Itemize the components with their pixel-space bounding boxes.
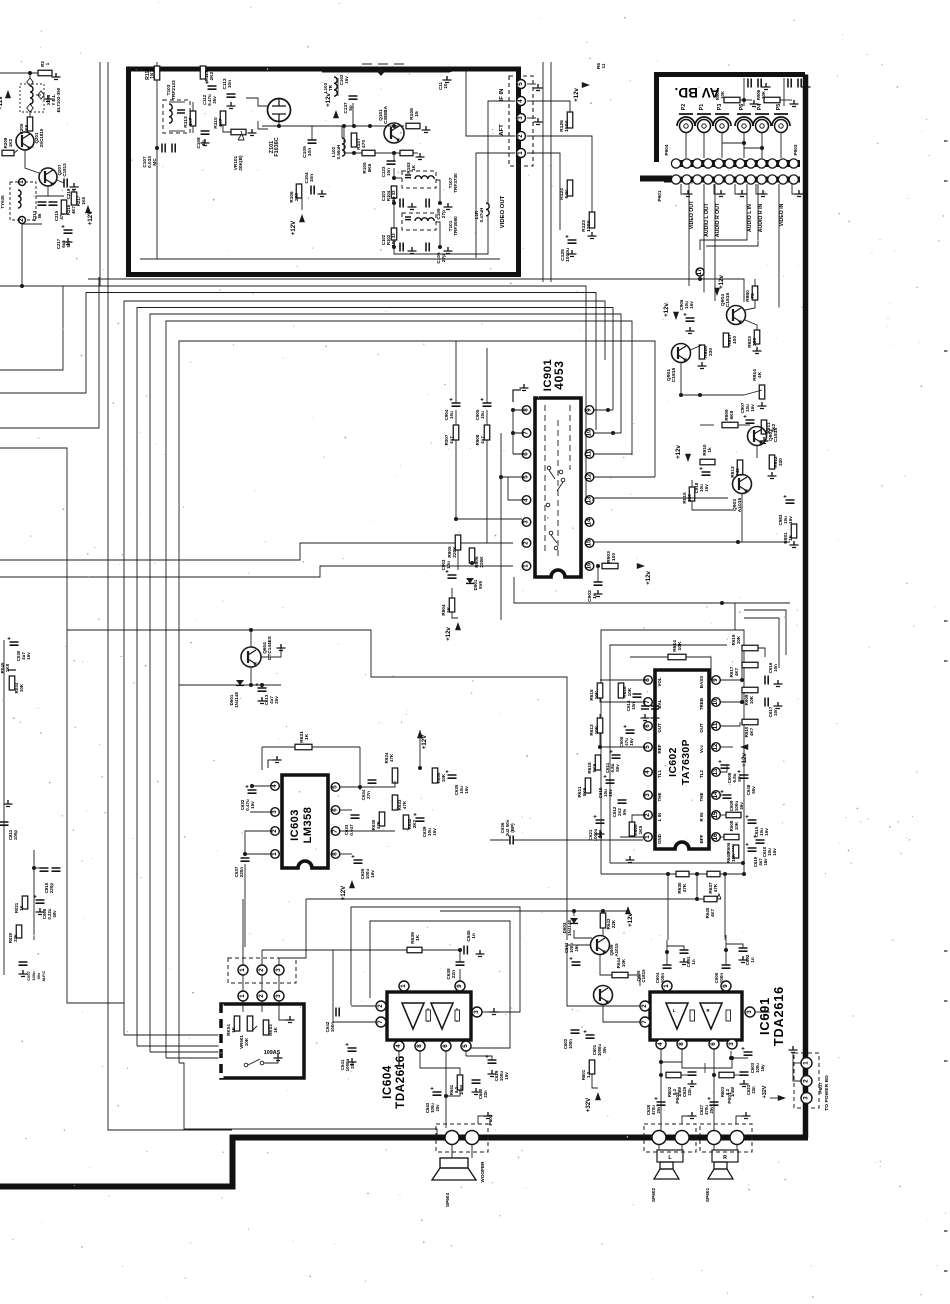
svg-text:10K: 10K <box>736 635 741 644</box>
svg-text:16v: 16v <box>464 786 469 794</box>
vertical line x501 pin5 pin4 <box>500 433 502 620</box>
resistor R630b 47K <box>379 812 385 826</box>
capacitor C609 100u <box>723 795 732 798</box>
svg-text:THE: THE <box>657 793 662 802</box>
svg-text:100: 100 <box>732 336 738 345</box>
capacitor C637 220n <box>241 858 250 861</box>
bus bottom turn L4 <box>137 1045 221 1047</box>
svg-text:TRF3730: TRF3730 <box>453 173 458 193</box>
svg-text:1n: 1n <box>691 959 696 964</box>
svg-text:C1815: C1815 <box>773 427 779 442</box>
y279 line left extension <box>88 278 130 280</box>
resistor R208 1K2 <box>2 150 14 156</box>
svg-text:4K7: 4K7 <box>710 908 715 917</box>
nested corner wires right of IC602 top <box>744 610 786 655</box>
resistor RK04 1K <box>234 1016 240 1031</box>
svg-text:DTC144ES: DTC144ES <box>267 636 272 660</box>
IC602 left pins <box>644 676 653 685</box>
svg-text:5p 33: 5p 33 <box>391 190 396 202</box>
svg-text:10K: 10K <box>621 958 626 967</box>
P602 pins <box>652 1131 666 1145</box>
wire node 17 line y279 <box>130 279 744 302</box>
svg-text:15: 15 <box>586 539 593 546</box>
svg-text:8: 8 <box>332 852 339 856</box>
resistor R020 33K <box>16 925 22 938</box>
svg-text:5p: 5p <box>348 105 353 111</box>
capacitor C619 10u 16v <box>606 780 615 783</box>
capacitor C692 1n <box>739 948 748 951</box>
svg-text:TRF2133: TRF2133 <box>171 80 176 100</box>
vertical x725 down to C692 <box>724 874 726 940</box>
capacitor C10B 1n <box>201 131 210 134</box>
resistor R980 75 <box>752 286 758 300</box>
wire R111 column <box>156 62 158 66</box>
capacitor C604 100n <box>663 965 672 968</box>
svg-text:17: 17 <box>696 268 703 275</box>
svg-text:14: 14 <box>712 791 719 798</box>
capacitor C615 10u 16v <box>748 820 757 823</box>
wire Q901 emitter node <box>681 362 744 395</box>
IC602 outer loop rectangle <box>601 630 744 874</box>
resistor R643 22K <box>602 911 604 913</box>
svg-text:25v: 25v <box>656 1106 661 1114</box>
svg-text:10n: 10n <box>386 168 391 176</box>
svg-text:+12v: +12v <box>663 303 670 317</box>
svg-text:8: 8 <box>644 678 651 682</box>
svg-text:GND: GND <box>657 833 662 844</box>
resistor R108 15 <box>406 123 420 129</box>
svg-text:22K: 22K <box>611 919 616 928</box>
svg-text:220: 220 <box>294 193 299 201</box>
top-left X201 network <box>0 72 44 74</box>
capacitor C638 22n <box>456 962 465 965</box>
svg-text:TDA2616: TDA2616 <box>395 1055 407 1109</box>
svg-text:10K: 10K <box>761 90 766 99</box>
wire pin12 to right loop <box>654 380 656 477</box>
svg-text:1n: 1n <box>750 957 755 962</box>
svg-text:+12v: +12v <box>627 913 634 927</box>
IC901 left pins <box>522 406 531 415</box>
svg-text:10n: 10n <box>773 664 778 672</box>
junction y602 <box>720 601 724 605</box>
svg-text:10K: 10K <box>734 821 739 830</box>
vertical x668 down to C691 <box>667 874 669 940</box>
wires IC604 left <box>351 1005 376 1007</box>
svg-text:10: 10 <box>586 429 593 436</box>
svg-text:1K3: 1K3 <box>150 69 156 79</box>
IC602 inner loop <box>610 645 727 863</box>
svg-text:9: 9 <box>586 408 593 412</box>
capacitor C612 2n2 <box>618 800 627 803</box>
wire pin2 AFT left <box>466 70 515 136</box>
IC601 bottom pins <box>656 1039 666 1049</box>
svg-text:4: 4 <box>517 99 524 103</box>
wire top pins up <box>261 950 263 965</box>
svg-text:AUDIO R OUT: AUDIO R OUT <box>715 202 721 237</box>
svg-text:50v: 50v <box>52 910 57 918</box>
capacitor C907 10u 16v <box>746 420 755 423</box>
svg-text:5V6: 5V6 <box>478 581 483 589</box>
RC network above P4 <box>764 97 780 103</box>
+12V arrow IC603 right <box>417 730 423 738</box>
svg-text:L: L <box>673 1008 676 1013</box>
resistor R909 6K8 <box>722 422 738 428</box>
svg-text:0.47uH: 0.47uH <box>479 208 484 223</box>
connector P607 dashed box <box>794 1053 819 1108</box>
svg-text:4K7: 4K7 <box>734 667 739 676</box>
speaker SP601 R box <box>713 1144 715 1150</box>
scan noise specks <box>308 197 309 198</box>
capacitor C645 1n <box>464 946 467 955</box>
svg-text:+12V: +12V <box>421 734 428 749</box>
svg-text:3: 3 <box>728 1042 735 1046</box>
svg-text:6: 6 <box>332 808 339 812</box>
svg-text:P903: P903 <box>793 144 798 155</box>
svg-text:15: 15 <box>712 811 719 818</box>
svg-text:IC602: IC602 <box>668 747 679 777</box>
svg-text:3: 3 <box>523 520 530 524</box>
svg-text:5K6: 5K6 <box>592 763 597 772</box>
svg-text:1: 1 <box>803 1061 810 1065</box>
capacitor C617 10n <box>765 698 768 707</box>
capacitor C639 10u <box>416 818 425 821</box>
capacitor C628 470u 25v <box>657 1102 666 1105</box>
wire bus L7 <box>179 341 655 1063</box>
wire pin8 down <box>340 853 352 855</box>
resistor R617 4K7 <box>742 662 758 668</box>
wire IC901 pin1 long line <box>0 566 513 577</box>
+12V arrow below IC603 <box>349 880 355 888</box>
inner ground rail tuner box <box>140 258 500 260</box>
svg-text:9: 9 <box>722 984 729 988</box>
svg-text:1K: 1K <box>19 904 24 910</box>
svg-text:4: 4 <box>271 784 278 788</box>
svg-text:2: 2 <box>377 1004 384 1008</box>
caps row y203 <box>393 198 395 203</box>
svg-text:100: 100 <box>611 553 617 562</box>
gnd hook P603 <box>478 1116 486 1124</box>
svg-text:150K: 150K <box>564 120 570 132</box>
wire pin13 long line <box>592 497 728 499</box>
svg-text:P2: P2 <box>681 104 687 111</box>
svg-text:R: R <box>706 1008 709 1013</box>
capacitor C632 0.47u 16v <box>248 790 257 793</box>
svg-text:16v: 16v <box>608 789 613 797</box>
svg-text:+12v: +12v <box>573 88 580 102</box>
transistor Q207 C1813 <box>39 168 57 186</box>
svg-text:2K2: 2K2 <box>209 71 214 80</box>
resistor R911 2K2 <box>761 420 767 434</box>
capacitor C213 56p <box>38 202 47 205</box>
capacitor C125 1000u <box>568 240 577 243</box>
svg-text:220p: 220p <box>49 883 54 893</box>
line y899 left extension <box>306 898 440 900</box>
svg-text:1.2: 1.2 <box>586 1071 591 1078</box>
resistor R102 33 <box>391 228 397 240</box>
svg-text:15: 15 <box>414 111 420 117</box>
P603 pins <box>445 1131 459 1145</box>
wire y602 drop to IC602 loop <box>734 603 736 630</box>
loop from bandpass to pin4 <box>394 216 488 254</box>
resistor R614 10K top of IC602 <box>668 654 686 660</box>
capacitor C603 100u 16v <box>744 1052 753 1055</box>
svg-text:220n: 220n <box>239 867 244 877</box>
switch in module <box>244 1063 248 1067</box>
+12v arrow near D603 <box>625 906 631 914</box>
long verticals x543 x551 <box>542 62 544 282</box>
svg-text:+12V: +12V <box>87 210 94 225</box>
svg-text:10K: 10K <box>441 773 446 782</box>
resistor R908 4u7 <box>484 425 490 440</box>
svg-text:10K: 10K <box>594 690 599 699</box>
svg-text:4K: 4K <box>757 371 763 378</box>
pin stubs IF <box>527 83 536 85</box>
resistor R104 33 <box>391 186 397 198</box>
capacitor C644 100u 16v <box>572 962 581 965</box>
wire pin8 cross <box>682 1056 732 1068</box>
wire bus L2 <box>0 293 596 431</box>
svg-text:25v: 25v <box>709 1106 714 1114</box>
resistor R205 1K8 <box>27 117 33 131</box>
svg-text:1K: 1K <box>304 733 310 740</box>
IC603 left pins <box>271 782 280 791</box>
svg-text:1K: 1K <box>415 934 421 941</box>
svg-text:10u: 10u <box>446 561 451 569</box>
svg-text:3: 3 <box>803 1096 810 1100</box>
svg-text:14: 14 <box>586 518 593 525</box>
wires right pins <box>721 648 742 680</box>
IC601 body TDA2616 <box>650 992 742 1040</box>
wire pin14 <box>721 794 727 796</box>
capacitor C606 47u 16v <box>626 730 635 733</box>
IC604 inner feedback loop <box>370 921 510 1048</box>
inner loop bottom y863 <box>629 862 743 864</box>
connector row thick bar P904-P903 <box>672 160 800 167</box>
svg-text:22n: 22n <box>751 1086 756 1094</box>
svg-text:16v: 16v <box>370 870 375 878</box>
svg-text:6: 6 <box>644 724 651 728</box>
resistor R123 120K <box>589 212 595 228</box>
svg-text:10K: 10K <box>720 90 725 99</box>
caps pair at pin7 <box>641 706 649 709</box>
wire left corner x99 <box>0 277 99 428</box>
capacitor C608 6.8u 50v <box>721 765 730 768</box>
capacitor C634 27n <box>368 780 377 783</box>
svg-text:7: 7 <box>377 1020 384 1024</box>
IC901 right pins <box>585 406 594 415</box>
svg-text:VIDEO OUT: VIDEO OUT <box>689 200 695 229</box>
svg-text:1K: 1K <box>446 606 451 613</box>
P601 pins <box>707 1131 721 1145</box>
resistor R613 10K <box>597 718 603 733</box>
svg-text:35v: 35v <box>212 96 217 104</box>
wire IC901 pins876 to gnd <box>512 410 514 454</box>
svg-text:1: 1 <box>239 994 246 998</box>
svg-text:+12v: +12v <box>325 93 332 107</box>
caps row y247 <box>392 245 396 249</box>
+12V arrow up lower <box>299 214 305 222</box>
svg-text:TDA2616: TDA2616 <box>771 986 786 1046</box>
+12v arrow left top <box>5 90 11 98</box>
svg-text:27n: 27n <box>366 791 371 799</box>
svg-text:BFF: BFF <box>699 834 704 843</box>
bandpass T101 dashed box <box>402 213 436 230</box>
svg-text:18p 33: 18p 33 <box>391 233 396 247</box>
svg-text:TL1: TL1 <box>657 770 662 778</box>
IC901 ground top left <box>513 390 521 402</box>
svg-text:4: 4 <box>395 1044 402 1048</box>
+12v arrow bottom left IC901 <box>455 622 461 630</box>
woofer speaker SP603 <box>451 1144 453 1158</box>
svg-text:AUDIO L IN: AUDIO L IN <box>747 204 753 232</box>
wire below IC901 y602 <box>514 577 790 603</box>
svg-text:6K8: 6K8 <box>729 410 734 419</box>
svg-text:1: 1 <box>523 564 530 568</box>
svg-text:REF: REF <box>657 744 662 753</box>
wire pin2 left <box>245 831 270 854</box>
svg-text:16: 16 <box>586 562 593 569</box>
+12v arrow pin12 <box>721 746 733 748</box>
svg-text:1: 1 <box>517 151 524 155</box>
svg-text:+12v: +12v <box>675 445 682 459</box>
resistor R910 1k <box>700 459 715 465</box>
capacitor C636 2u2 50v BP <box>510 836 513 845</box>
wires to loop right <box>743 750 745 765</box>
capacitor C811 100p <box>0 822 9 825</box>
transistor Q101 C380BA <box>384 123 404 143</box>
svg-text:M.P.C: M.P.C <box>41 971 46 982</box>
capacitor C616 10n <box>765 676 768 685</box>
svg-text:+12V: +12V <box>290 220 297 235</box>
svg-text:16v: 16v <box>704 484 709 492</box>
resistor R124 64K <box>567 180 573 196</box>
svg-text:+12v: +12v <box>645 571 652 585</box>
svg-text:3: 3 <box>473 1010 480 1014</box>
bandpass T107 dashed box <box>402 171 436 188</box>
capacitor C030 4u7 16v <box>10 642 19 645</box>
capacitor C810 220p pair <box>40 868 49 871</box>
bandpass gnds <box>408 203 417 210</box>
svg-text:16v: 16v <box>26 652 31 660</box>
vertical line x487 to pin2 <box>486 348 488 403</box>
svg-text:56: 56 <box>37 213 42 218</box>
wire vertical x100 top <box>99 62 101 286</box>
IC601 top pins <box>662 981 672 991</box>
svg-text:AV BD.: AV BD. <box>675 85 720 100</box>
RCA jacks P2 P1 P3 P6 P4 P5 <box>680 120 693 133</box>
svg-text:10K: 10K <box>627 687 632 696</box>
IC603 right pins <box>331 783 340 792</box>
svg-text:TO POWER BD: TO POWER BD <box>824 1075 830 1111</box>
svg-text:100n: 100n <box>568 1039 573 1049</box>
connector P601 dashed box <box>700 1124 752 1152</box>
svg-text:BASS: BASS <box>699 676 704 688</box>
resistor R610 4K7 <box>742 719 758 725</box>
svg-text:22n: 22n <box>687 1088 692 1096</box>
svg-text:22n: 22n <box>451 970 456 978</box>
svg-text:330: 330 <box>708 348 714 357</box>
capacitor C611 6.8u 50v <box>612 755 621 758</box>
AV BD. right thick border running down page <box>803 75 809 1138</box>
gnd hook P602 <box>682 1116 690 1124</box>
svg-text:1K: 1K <box>411 164 416 171</box>
svg-text:10: 10 <box>443 83 448 88</box>
svg-text:SP602: SP602 <box>651 1188 656 1203</box>
speaker SP602 cone <box>660 1162 673 1169</box>
svg-text:+12v: +12v <box>741 753 748 767</box>
wire rail y153 <box>344 152 418 154</box>
resistor R644 10K <box>612 972 628 978</box>
svg-text:7: 7 <box>641 1020 648 1024</box>
IC603 gnd hook top <box>268 760 275 768</box>
svg-text:+12v: +12v <box>445 627 452 641</box>
wire pins 1-2 left <box>620 836 643 838</box>
bus bottom turn L3 <box>124 1034 221 1036</box>
svg-text:2: 2 <box>641 1004 648 1008</box>
svg-text:1: 1 <box>239 968 246 972</box>
resistor R105 5K6 <box>362 150 375 156</box>
svg-text:2: 2 <box>523 541 530 545</box>
wires Q902 Q903 <box>756 445 758 458</box>
svg-text:3: 3 <box>275 968 282 972</box>
svg-text:R IN: R IN <box>699 813 704 822</box>
IC602 body TA7630P <box>655 670 709 849</box>
svg-text:P607: P607 <box>818 1082 824 1094</box>
svg-text:AUDIO L OUT: AUDIO L OUT <box>704 202 710 236</box>
svg-text:10n: 10n <box>309 174 314 182</box>
svg-text:MC: MC <box>152 158 157 166</box>
capacitor C640 22n <box>472 1080 481 1083</box>
resistor R648 pin16 <box>724 834 739 840</box>
diode D603 1N4148 <box>573 911 575 916</box>
svg-text:0.56uH: 0.56uH <box>336 145 341 160</box>
wire pin5 right cluster <box>340 786 372 788</box>
capacitor C113 10n <box>227 94 236 97</box>
svg-text:1K: 1K <box>231 1026 236 1032</box>
wires C213 R216 row <box>36 195 64 197</box>
wire vertical x108 from top <box>108 62 232 1130</box>
ceramic filter Z101 F1036C <box>268 99 291 122</box>
connector row thick bar P901 <box>664 177 800 183</box>
capacitor C137 5p <box>349 96 358 99</box>
svg-text:50v: 50v <box>751 786 756 794</box>
capacitor C642 100n <box>336 1008 339 1017</box>
transistor Q606 A1015 <box>591 936 610 955</box>
svg-text:11: 11 <box>712 722 719 729</box>
left spine wire <box>3 640 5 975</box>
transistor Q903 A1015 <box>733 475 752 494</box>
RC network above P6 <box>724 97 740 103</box>
capacitor C007 100n MPC <box>19 962 28 965</box>
resistor R634 47K <box>392 768 398 783</box>
resistor R110 4K7 <box>220 111 226 125</box>
svg-text:1n: 1n <box>471 933 476 939</box>
resistor RK03 1K <box>263 1020 269 1035</box>
svg-text:220K: 220K <box>452 546 457 558</box>
svg-text:13: 13 <box>712 768 719 775</box>
svg-text:25v: 25v <box>274 696 279 704</box>
wires pins to module <box>242 975 244 991</box>
svg-text:47K: 47K <box>402 800 407 809</box>
transistor Q604 DTC144ES <box>241 647 261 667</box>
connector lower stubs and grounds <box>681 184 686 194</box>
diode D901 5V6 <box>466 578 474 583</box>
resistor R632 2K2 <box>403 815 409 829</box>
svg-text:10u: 10u <box>480 411 485 419</box>
svg-text:TA7630P: TA7630P <box>681 739 692 785</box>
pot VR101 20K(B) <box>231 129 246 135</box>
wire R110 to VR101 <box>223 125 231 132</box>
